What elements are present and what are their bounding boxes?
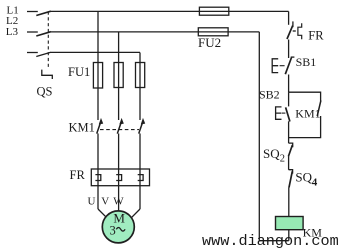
wire phase3 drop from L3 to fuse — [139, 53, 141, 63]
switch QS handle hook — [42, 70, 53, 79]
fuse FU2 pole 1 — [199, 7, 228, 15]
wire phase3 KM1 contact through FR box — [139, 134, 141, 210]
wire phase3 FR box to motor — [132, 209, 141, 218]
wire phase3 fuse to KM1 contact — [139, 63, 141, 121]
svg-text:FU1: FU1 — [68, 65, 90, 79]
wire coil KM to bottom rail — [288, 230, 290, 241]
pushbutton SB1 linkage dash — [280, 65, 285, 67]
wire branch top to KM1 aux — [289, 92, 321, 101]
thermal relay FR NC contact top stub — [292, 21, 294, 27]
wire L2 from label to QS — [27, 31, 38, 33]
wire phase1 fuse to KM1 contact — [97, 63, 99, 121]
switch QS pole 3 blade — [36, 52, 51, 56]
limit switch SQ4 NC blade — [289, 171, 292, 187]
contactor KM1 main contact pole 1 — [97, 119, 103, 134]
svg-text:FR: FR — [70, 168, 86, 182]
fuse FU1 pole 3 — [136, 63, 145, 88]
svg-text:L3: L3 — [6, 26, 19, 38]
wire SQ2 to SQ4 — [288, 156, 290, 170]
wire phase2 drop from L2 to fuse — [118, 32, 120, 63]
svg-text:SQ: SQ — [295, 169, 312, 184]
contactor KM1 main contact pole 2 — [117, 119, 123, 134]
thermal relay FR heater element 3 — [138, 175, 143, 181]
wire L3 from label to QS — [27, 52, 38, 54]
pushbutton SB1 NC seat tick — [291, 56, 295, 58]
svg-text:SQ: SQ — [263, 146, 280, 161]
wire L2 from QS to control corner — [51, 31, 260, 33]
wire phase1 KM1 contact through FR box — [97, 134, 99, 210]
wire SQ4 to coil KM — [288, 187, 290, 216]
svg-text:FR: FR — [308, 29, 324, 43]
wire L1 from QS to control corner — [51, 10, 289, 12]
wire branch node to SB2 — [288, 92, 290, 106]
svg-text:SB2: SB2 — [259, 88, 280, 102]
pushbutton SB2 actuator E — [276, 107, 282, 119]
limit switch SQ2 seat hook — [289, 143, 293, 147]
svg-text:U: U — [88, 195, 96, 207]
wire L3 from QS to corner — [51, 51, 141, 53]
wire SB1 to branch node — [288, 75, 290, 93]
thermal relay FR heater box — [91, 169, 149, 186]
svg-text:V: V — [101, 195, 109, 207]
wire L1 corner down to FR contact — [288, 11, 290, 24]
svg-text:3: 3 — [110, 224, 116, 238]
thermal relay FR heater element 1 — [95, 175, 100, 181]
wire phase2 KM1 contact through FR box to motor — [118, 134, 120, 212]
svg-text:W: W — [113, 195, 124, 207]
pushbutton SB2 linkage dash — [282, 112, 285, 114]
wire SB2 to SQ2 — [288, 121, 290, 143]
wire phase2 fuse to KM1 contact — [118, 63, 120, 121]
switch QS pole 2 blade — [36, 32, 51, 36]
pushbutton SB2 NO blade — [286, 107, 290, 121]
limit switch SQ2 NC blade — [288, 145, 292, 156]
thermal relay FR NC contact side tick — [293, 30, 296, 32]
contactor KM1 main contact pole 3 — [139, 119, 145, 134]
svg-text:QS: QS — [37, 85, 53, 99]
wire phase1 drop from L1 to fuse — [97, 12, 99, 63]
fuse FU1 pole 2 — [114, 63, 123, 88]
svg-text:KM1: KM1 — [69, 121, 95, 135]
pushbutton SB1 NC blade — [285, 58, 291, 75]
svg-text:KM1: KM1 — [295, 106, 320, 120]
wire L2 corner down left control rail — [258, 32, 260, 241]
motor M circle — [102, 211, 134, 243]
thermal relay FR NC contact blade — [287, 26, 293, 39]
wire KM1 aux to branch bottom — [289, 116, 321, 138]
wire bottom rail — [259, 240, 289, 242]
wire phase1 FR box to motor — [98, 209, 107, 218]
thermal relay FR heater element 2 — [116, 175, 121, 181]
switch QS pole 1 blade — [36, 11, 51, 15]
thermal relay FR trip element glyph — [298, 23, 302, 39]
coil KM rectangle — [276, 217, 304, 230]
svg-text:SB1: SB1 — [296, 55, 317, 69]
fuse FU2 pole 2 — [198, 28, 228, 36]
svg-text:4: 4 — [312, 177, 318, 189]
contactor KM1 aux NO blade — [317, 100, 321, 116]
fuse FU1 pole 1 — [93, 63, 102, 89]
switch QS linkage dashed line — [47, 12, 49, 70]
wire L1 from label to QS — [27, 11, 38, 13]
svg-text:www.diangon.com: www.diangon.com — [202, 232, 339, 250]
pushbutton SB1 actuator E — [272, 59, 278, 73]
motor tilde squiggle — [116, 228, 125, 232]
svg-text:2: 2 — [280, 154, 285, 165]
svg-text:FU2: FU2 — [198, 35, 221, 50]
wire FR contact to SB1 — [288, 40, 290, 59]
limit switch SQ4 seat hook — [289, 170, 293, 174]
contactor KM1 linkage dashed line — [100, 129, 139, 131]
